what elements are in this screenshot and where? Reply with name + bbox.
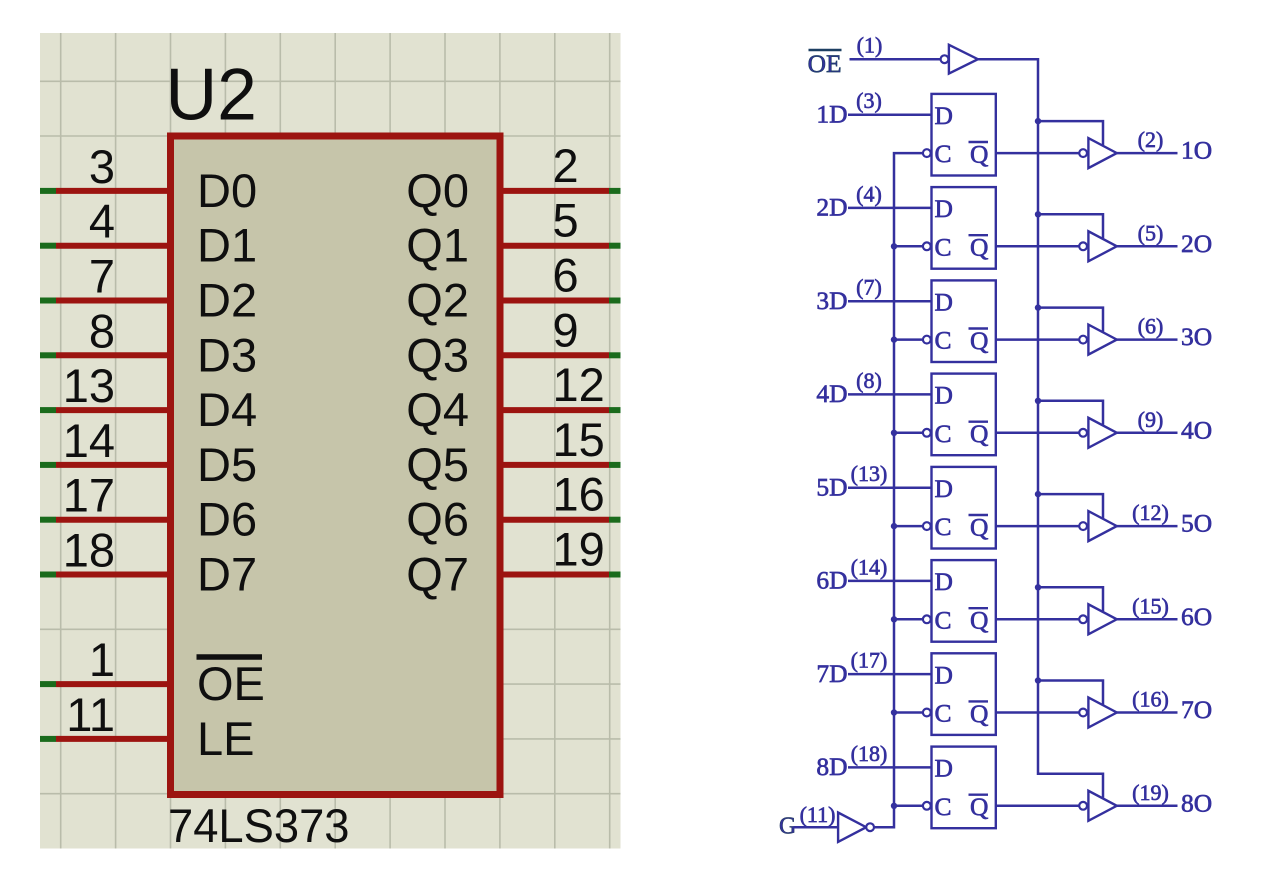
junction: clock rail row 8 — [891, 803, 897, 809]
svg-text:U2: U2 — [166, 55, 257, 136]
svg-text:D2: D2 — [197, 274, 257, 327]
svg-text:D: D — [935, 660, 953, 689]
svg-text:13: 13 — [63, 359, 115, 412]
svg-text:(1): (1) — [857, 33, 883, 58]
svg-text:Q4: Q4 — [406, 383, 469, 436]
svg-text:D1: D1 — [197, 219, 257, 272]
svg-text:(9): (9) — [1138, 407, 1164, 432]
latch 6 label Qbar — [969, 606, 989, 635]
svg-text:OE: OE — [197, 657, 265, 710]
svg-text:D: D — [935, 194, 953, 223]
svg-text:LE: LE — [197, 712, 255, 765]
wire latch 5 clock stub — [894, 525, 922, 528]
wire enable branch row 4 — [1038, 401, 1103, 425]
wire output 8O — [1117, 805, 1178, 808]
wire: pin 5 (Q1) — [504, 243, 621, 249]
wire: pin 17 (D6) — [40, 517, 167, 523]
svg-text:1O: 1O — [1181, 136, 1212, 165]
svg-text:12: 12 — [553, 358, 605, 411]
svg-text:(18): (18) — [851, 741, 888, 766]
latch 6 C bubble — [923, 615, 931, 623]
output buffer 4 input bubble — [1079, 429, 1087, 437]
svg-text:5: 5 — [553, 194, 579, 247]
wire: pin 8 (D3) — [40, 352, 167, 358]
latch 4 box — [932, 374, 996, 456]
svg-text:D4: D4 — [197, 383, 257, 436]
svg-text:Q3: Q3 — [406, 328, 469, 381]
output buffer 2 input bubble — [1079, 242, 1087, 250]
output buffer 6 (tri-state) — [1088, 604, 1116, 634]
svg-text:Q0: Q0 — [406, 164, 469, 217]
wire output 5O — [1117, 525, 1178, 528]
svg-text:1: 1 — [89, 633, 115, 686]
svg-text:C: C — [935, 605, 952, 634]
latch 5 box — [932, 467, 996, 549]
svg-text:Q: Q — [970, 419, 988, 448]
wire: pin 16 (Q6) — [504, 517, 621, 523]
svg-text:Q: Q — [970, 233, 988, 262]
junction: enable rail row 6 — [1035, 584, 1041, 590]
svg-text:D6: D6 — [197, 493, 257, 546]
svg-text:Q7: Q7 — [406, 548, 469, 601]
pin name OE with overline — [197, 657, 265, 710]
junction: clock rail row 3 — [891, 336, 897, 342]
svg-text:(3): (3) — [856, 88, 882, 113]
wire: pin 11 (LE) — [40, 736, 167, 742]
svg-text:8: 8 — [89, 304, 115, 357]
svg-text:Q: Q — [970, 606, 988, 635]
inverter U4 (G/LE) — [838, 813, 866, 842]
latch 8 C bubble — [923, 802, 931, 810]
svg-text:C: C — [935, 232, 952, 261]
junction: enable rail row 1 — [1035, 118, 1041, 124]
svg-text:2D: 2D — [816, 193, 847, 222]
wire 4D input — [848, 393, 932, 396]
wire: pin 2 (Q0) — [504, 188, 621, 194]
svg-text:Q: Q — [970, 513, 988, 542]
latch 2 box — [932, 187, 996, 269]
output buffer 5 (tri-state) — [1088, 511, 1116, 541]
wire latch 5 Qbar to output buffer — [996, 525, 1079, 528]
wire enable branch row 5 — [1038, 494, 1103, 518]
latch 3 C bubble — [923, 336, 931, 344]
wire output 4O — [1117, 432, 1178, 435]
svg-text:(14): (14) — [851, 554, 888, 579]
svg-text:3: 3 — [89, 140, 115, 193]
latch 6 box — [932, 560, 996, 642]
junction: enable rail row 5 — [1035, 491, 1041, 497]
latch 8 label Qbar — [969, 792, 989, 821]
chip U2 body (74LS373) — [171, 136, 501, 795]
output buffer 5 input bubble — [1079, 522, 1087, 530]
svg-text:2: 2 — [553, 139, 579, 192]
wire enable branch row 1 — [1038, 121, 1103, 145]
svg-text:D: D — [935, 101, 953, 130]
wire: pin 18 (D7) — [40, 572, 167, 578]
svg-text:D: D — [935, 567, 953, 596]
wire OE buffer output to enable rail — [978, 59, 1103, 798]
wire enable branch row 2 — [1038, 214, 1103, 238]
wire latch 3 Qbar to output buffer — [996, 338, 1079, 341]
svg-text:(13): (13) — [851, 461, 888, 486]
svg-text:(17): (17) — [851, 648, 888, 673]
latch 3 label Qbar — [969, 326, 989, 355]
svg-text:C: C — [935, 792, 952, 821]
output buffer 2 (tri-state) — [1088, 231, 1116, 261]
wire latch 3 clock stub — [894, 338, 922, 341]
svg-text:6O: 6O — [1181, 602, 1212, 631]
wire output 7O — [1117, 711, 1178, 714]
svg-text:C: C — [935, 512, 952, 541]
output buffer 3 (tri-state) — [1088, 325, 1116, 355]
wire: pin 1 (OE) — [40, 681, 167, 687]
svg-text:Q: Q — [970, 699, 988, 728]
buffer U3 input bubble — [941, 55, 949, 63]
svg-text:7O: 7O — [1181, 695, 1212, 724]
latch 5 label Qbar — [969, 513, 989, 542]
junction: clock rail row 5 — [891, 523, 897, 529]
latch 8 box — [932, 747, 996, 829]
svg-text:Q2: Q2 — [406, 274, 469, 327]
svg-text:Q5: Q5 — [406, 438, 469, 491]
svg-text:6: 6 — [553, 249, 579, 302]
svg-text:C: C — [935, 419, 952, 448]
wire 3D input — [848, 300, 932, 303]
svg-text:(11): (11) — [800, 802, 836, 827]
latch 4 label Qbar — [969, 419, 989, 448]
output buffer 7 input bubble — [1079, 709, 1087, 717]
junction: enable rail row 7 — [1035, 677, 1041, 683]
svg-text:8D: 8D — [816, 752, 847, 781]
wire latch 2 clock stub — [894, 245, 922, 248]
latch 7 label Qbar — [969, 699, 989, 728]
wire 5D input — [848, 486, 932, 489]
svg-text:C: C — [935, 139, 952, 168]
wire 7D input — [848, 673, 932, 676]
svg-text:5D: 5D — [816, 473, 847, 502]
latch 2 label Qbar — [969, 233, 989, 262]
wire clock rail — [874, 153, 922, 827]
svg-text:4: 4 — [89, 195, 115, 248]
svg-text:17: 17 — [63, 469, 115, 522]
wire enable branch row 7 — [1038, 681, 1103, 705]
wire latch 7 clock stub — [894, 711, 922, 714]
wire enable branch row 6 — [1038, 587, 1103, 611]
svg-text:74LS373: 74LS373 — [168, 799, 350, 852]
svg-text:6D: 6D — [816, 566, 847, 595]
svg-text:(8): (8) — [856, 368, 882, 393]
junction: clock rail row 7 — [891, 709, 897, 715]
wire latch 6 clock stub — [894, 618, 922, 621]
wire G input — [794, 826, 839, 829]
wire output 2O — [1117, 245, 1178, 248]
latch 1 box — [932, 94, 996, 176]
wire: pin 13 (D4) — [40, 407, 167, 413]
svg-text:D: D — [935, 474, 953, 503]
net label OE (active low) — [808, 49, 842, 78]
svg-text:1D: 1D — [816, 100, 847, 129]
svg-text:7D: 7D — [816, 659, 847, 688]
wire output 3O — [1117, 338, 1178, 341]
wire output 6O — [1117, 618, 1178, 621]
svg-text:7: 7 — [89, 250, 115, 303]
svg-text:18: 18 — [63, 524, 115, 577]
svg-text:D7: D7 — [197, 548, 257, 601]
wire 2D input — [848, 207, 932, 210]
output buffer 8 input bubble — [1079, 802, 1087, 810]
latch 1 C bubble — [923, 149, 931, 157]
svg-text:4D: 4D — [816, 379, 847, 408]
svg-text:Q1: Q1 — [406, 219, 469, 272]
latch 1 label Qbar — [969, 140, 989, 169]
svg-text:Q: Q — [970, 326, 988, 355]
schematic sheet background panel — [40, 33, 621, 849]
wire enable branch row 3 — [1038, 308, 1103, 332]
svg-text:14: 14 — [63, 414, 115, 467]
svg-text:15: 15 — [553, 413, 605, 466]
output buffer 8 (tri-state) — [1088, 791, 1116, 821]
svg-text:D3: D3 — [197, 328, 257, 381]
svg-text:(16): (16) — [1132, 687, 1169, 712]
wire 1D input — [848, 113, 932, 116]
inverter U4 output bubble — [866, 823, 874, 831]
wire: pin 15 (Q5) — [504, 462, 621, 468]
svg-text:C: C — [935, 699, 952, 728]
wire latch 6 Qbar to output buffer — [996, 618, 1079, 621]
svg-text:(15): (15) — [1132, 593, 1169, 618]
latch 3 box — [932, 280, 996, 362]
wire 8D input — [848, 766, 932, 769]
svg-text:2O: 2O — [1181, 229, 1212, 258]
output buffer 1 (tri-state) — [1088, 138, 1116, 168]
junction: enable rail row 2 — [1035, 211, 1041, 217]
svg-text:Q: Q — [970, 140, 988, 169]
junction: clock rail row 2 — [891, 243, 897, 249]
latch 7 C bubble — [923, 709, 931, 717]
svg-text:(12): (12) — [1132, 500, 1169, 525]
svg-text:(4): (4) — [856, 181, 882, 206]
latch 4 C bubble — [923, 429, 931, 437]
output buffer 3 input bubble — [1079, 336, 1087, 344]
output buffer 1 input bubble — [1079, 149, 1087, 157]
output buffer 4 (tri-state) — [1088, 418, 1116, 448]
wire: pin 4 (D1) — [40, 243, 167, 249]
junction: clock rail row 6 — [891, 616, 897, 622]
svg-text:19: 19 — [553, 523, 605, 576]
svg-text:(5): (5) — [1138, 220, 1164, 245]
output buffer 6 input bubble — [1079, 615, 1087, 623]
svg-text:D5: D5 — [197, 438, 257, 491]
svg-text:(2): (2) — [1138, 127, 1164, 152]
wire latch 1 Qbar to output buffer — [996, 152, 1079, 155]
latch 2 C bubble — [923, 242, 931, 250]
output buffer 7 (tri-state) — [1088, 698, 1116, 728]
svg-text:D: D — [935, 381, 953, 410]
wire: pin 6 (Q2) — [504, 298, 621, 304]
wire: pin 9 (Q3) — [504, 352, 621, 358]
svg-text:4O: 4O — [1181, 415, 1212, 444]
svg-text:Q6: Q6 — [406, 493, 469, 546]
junction: enable rail row 4 — [1035, 398, 1041, 404]
wire: pin 19 (Q7) — [504, 572, 621, 578]
svg-text:3D: 3D — [816, 286, 847, 315]
svg-text:9: 9 — [553, 303, 579, 356]
wire latch 4 Qbar to output buffer — [996, 432, 1079, 435]
svg-text:5O: 5O — [1181, 509, 1212, 538]
svg-text:D0: D0 — [197, 164, 257, 217]
svg-text:(7): (7) — [856, 275, 882, 300]
junction: clock rail row 4 — [891, 430, 897, 436]
latch 5 C bubble — [923, 522, 931, 530]
wire: pin 12 (Q4) — [504, 407, 621, 413]
wire: pin 14 (D5) — [40, 462, 167, 468]
svg-text:3O: 3O — [1181, 322, 1212, 351]
wire: pin 7 (D2) — [40, 298, 167, 304]
wire output 1O — [1117, 152, 1178, 155]
buffer U3 (OE inverter) — [949, 45, 978, 74]
svg-text:D: D — [935, 754, 953, 783]
svg-text:Q: Q — [970, 792, 988, 821]
junction: enable rail row 3 — [1035, 304, 1041, 310]
svg-text:16: 16 — [553, 468, 605, 521]
svg-text:OE: OE — [808, 49, 842, 78]
wire latch 8 Qbar to output buffer — [996, 805, 1079, 808]
wire latch 2 Qbar to output buffer — [996, 245, 1079, 248]
svg-text:D: D — [935, 288, 953, 317]
wire latch 7 Qbar to output buffer — [996, 711, 1079, 714]
wire latch 8 clock stub — [894, 805, 922, 808]
latch 7 box — [932, 653, 996, 735]
svg-text:(19): (19) — [1132, 780, 1169, 805]
wire: pin 3 (D0) — [40, 188, 167, 194]
wire latch 4 clock stub — [894, 432, 922, 435]
svg-text:11: 11 — [66, 688, 115, 741]
svg-text:C: C — [935, 326, 952, 355]
wire OE input — [850, 58, 941, 61]
svg-text:(6): (6) — [1138, 314, 1164, 339]
svg-text:8O: 8O — [1181, 788, 1212, 817]
wire 6D input — [848, 580, 932, 583]
